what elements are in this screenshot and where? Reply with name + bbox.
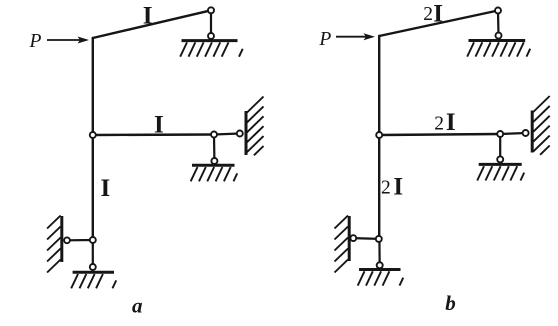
ground hatching (frame a bottom support) (71, 274, 116, 288)
pin at top of support link (frame b top-right) (495, 8, 501, 14)
svg-text:b: b (445, 291, 456, 315)
vertical link to ground (frame b middle support) (499, 134, 501, 159)
middle beam member (frame b) (379, 134, 500, 135)
svg-text:I: I (446, 109, 456, 136)
load arrow P (frame b) (336, 33, 375, 40)
svg-text:I: I (433, 1, 443, 28)
roller pin at wall (frame b middle support) (523, 130, 529, 136)
roller pin on ground (frame a bottom support) (90, 264, 96, 270)
svg-text:2: 2 (381, 178, 391, 199)
label 2I (lower column, frame b) (381, 174, 403, 201)
ground line (frame b middle support) (479, 163, 522, 166)
wall line (frame a middle support) (245, 111, 248, 155)
svg-text:2: 2 (434, 113, 444, 134)
roller pin at wall (frame a bottom support) (64, 237, 70, 243)
svg-text:I: I (143, 2, 153, 29)
ground hatching (frame b top-right support) (467, 42, 530, 56)
vertical support link (frame b top-right) (497, 11, 500, 36)
ground line (frame b bottom support) (359, 268, 400, 271)
pin at column base joint (frame b bottom support) (376, 236, 382, 242)
ground hatching (frame a middle support) (191, 167, 238, 181)
ground line (frame a middle support) (192, 164, 235, 167)
ground line (frame a top-right support) (182, 39, 238, 42)
ground hatching (frame b middle support) (477, 166, 524, 180)
ground line (frame b top-right support) (469, 39, 526, 42)
svg-text:I: I (101, 175, 111, 202)
wall hatching (frame b bottom support) (335, 216, 349, 273)
svg-text:I: I (154, 112, 164, 139)
horizontal link to wall (frame a middle support) (214, 134, 240, 135)
roller pin at wall (frame a middle support) (237, 131, 243, 137)
column member (frame b) (378, 36, 380, 239)
wall hatching (frame a bottom support) (47, 216, 61, 273)
wall hatching (frame b middle support) (533, 96, 550, 155)
inclined member (frame a top beam) (93, 10, 211, 38)
svg-text:2: 2 (423, 4, 433, 25)
inclined member (frame b top beam) (379, 11, 498, 37)
vertical support link (frame a top-right) (210, 10, 212, 36)
wall line (frame b middle support) (531, 111, 534, 153)
label 2I (middle beam, frame b) (434, 109, 455, 136)
ground hatching (frame b bottom support) (358, 271, 404, 285)
svg-text:P: P (318, 29, 331, 50)
vertical link to ground (frame a bottom support) (92, 240, 94, 267)
pin at column base joint (frame a bottom support) (90, 237, 96, 243)
wall line (frame b bottom support) (348, 216, 351, 261)
horizontal link to wall (frame b middle support) (500, 133, 525, 134)
label 2I (inclined member, frame b) (423, 1, 443, 28)
roller pin on ground (frame a middle support) (211, 158, 217, 164)
hinge at column/beam joint (frame a) (90, 132, 96, 138)
horizontal link to wall (frame a bottom support) (67, 239, 93, 242)
pin at right end of middle beam (frame b) (497, 131, 503, 137)
pin at top of support link (frame a top-right) (208, 7, 214, 13)
pin at right end of middle beam (frame a) (211, 132, 217, 138)
roller pin on ground (frame b bottom support) (377, 262, 383, 268)
load arrow P (frame a) (47, 37, 89, 44)
svg-text:a: a (132, 294, 143, 318)
horizontal link to wall (frame b bottom support) (353, 237, 379, 240)
svg-text:P: P (29, 31, 42, 52)
roller pin at wall (frame b bottom support) (350, 235, 356, 241)
svg-text:I: I (393, 174, 403, 201)
column member (frame a) (92, 38, 94, 240)
roller pin on ground (frame b top-right) (496, 33, 502, 39)
wall line (frame a bottom support) (60, 216, 63, 262)
roller pin on ground (frame b middle support) (497, 156, 503, 162)
vertical link to ground (frame b bottom support) (378, 239, 381, 265)
wall hatching (frame a middle support) (247, 97, 264, 156)
vertical link to ground (frame a middle support) (213, 135, 216, 162)
ground hatching (frame a top-right support) (180, 42, 243, 56)
hinge at column/beam joint (frame b) (376, 132, 382, 138)
middle beam member (frame a) (93, 133, 214, 136)
roller pin on ground (frame a top-right) (208, 33, 214, 39)
ground line (frame a bottom support) (73, 271, 114, 274)
